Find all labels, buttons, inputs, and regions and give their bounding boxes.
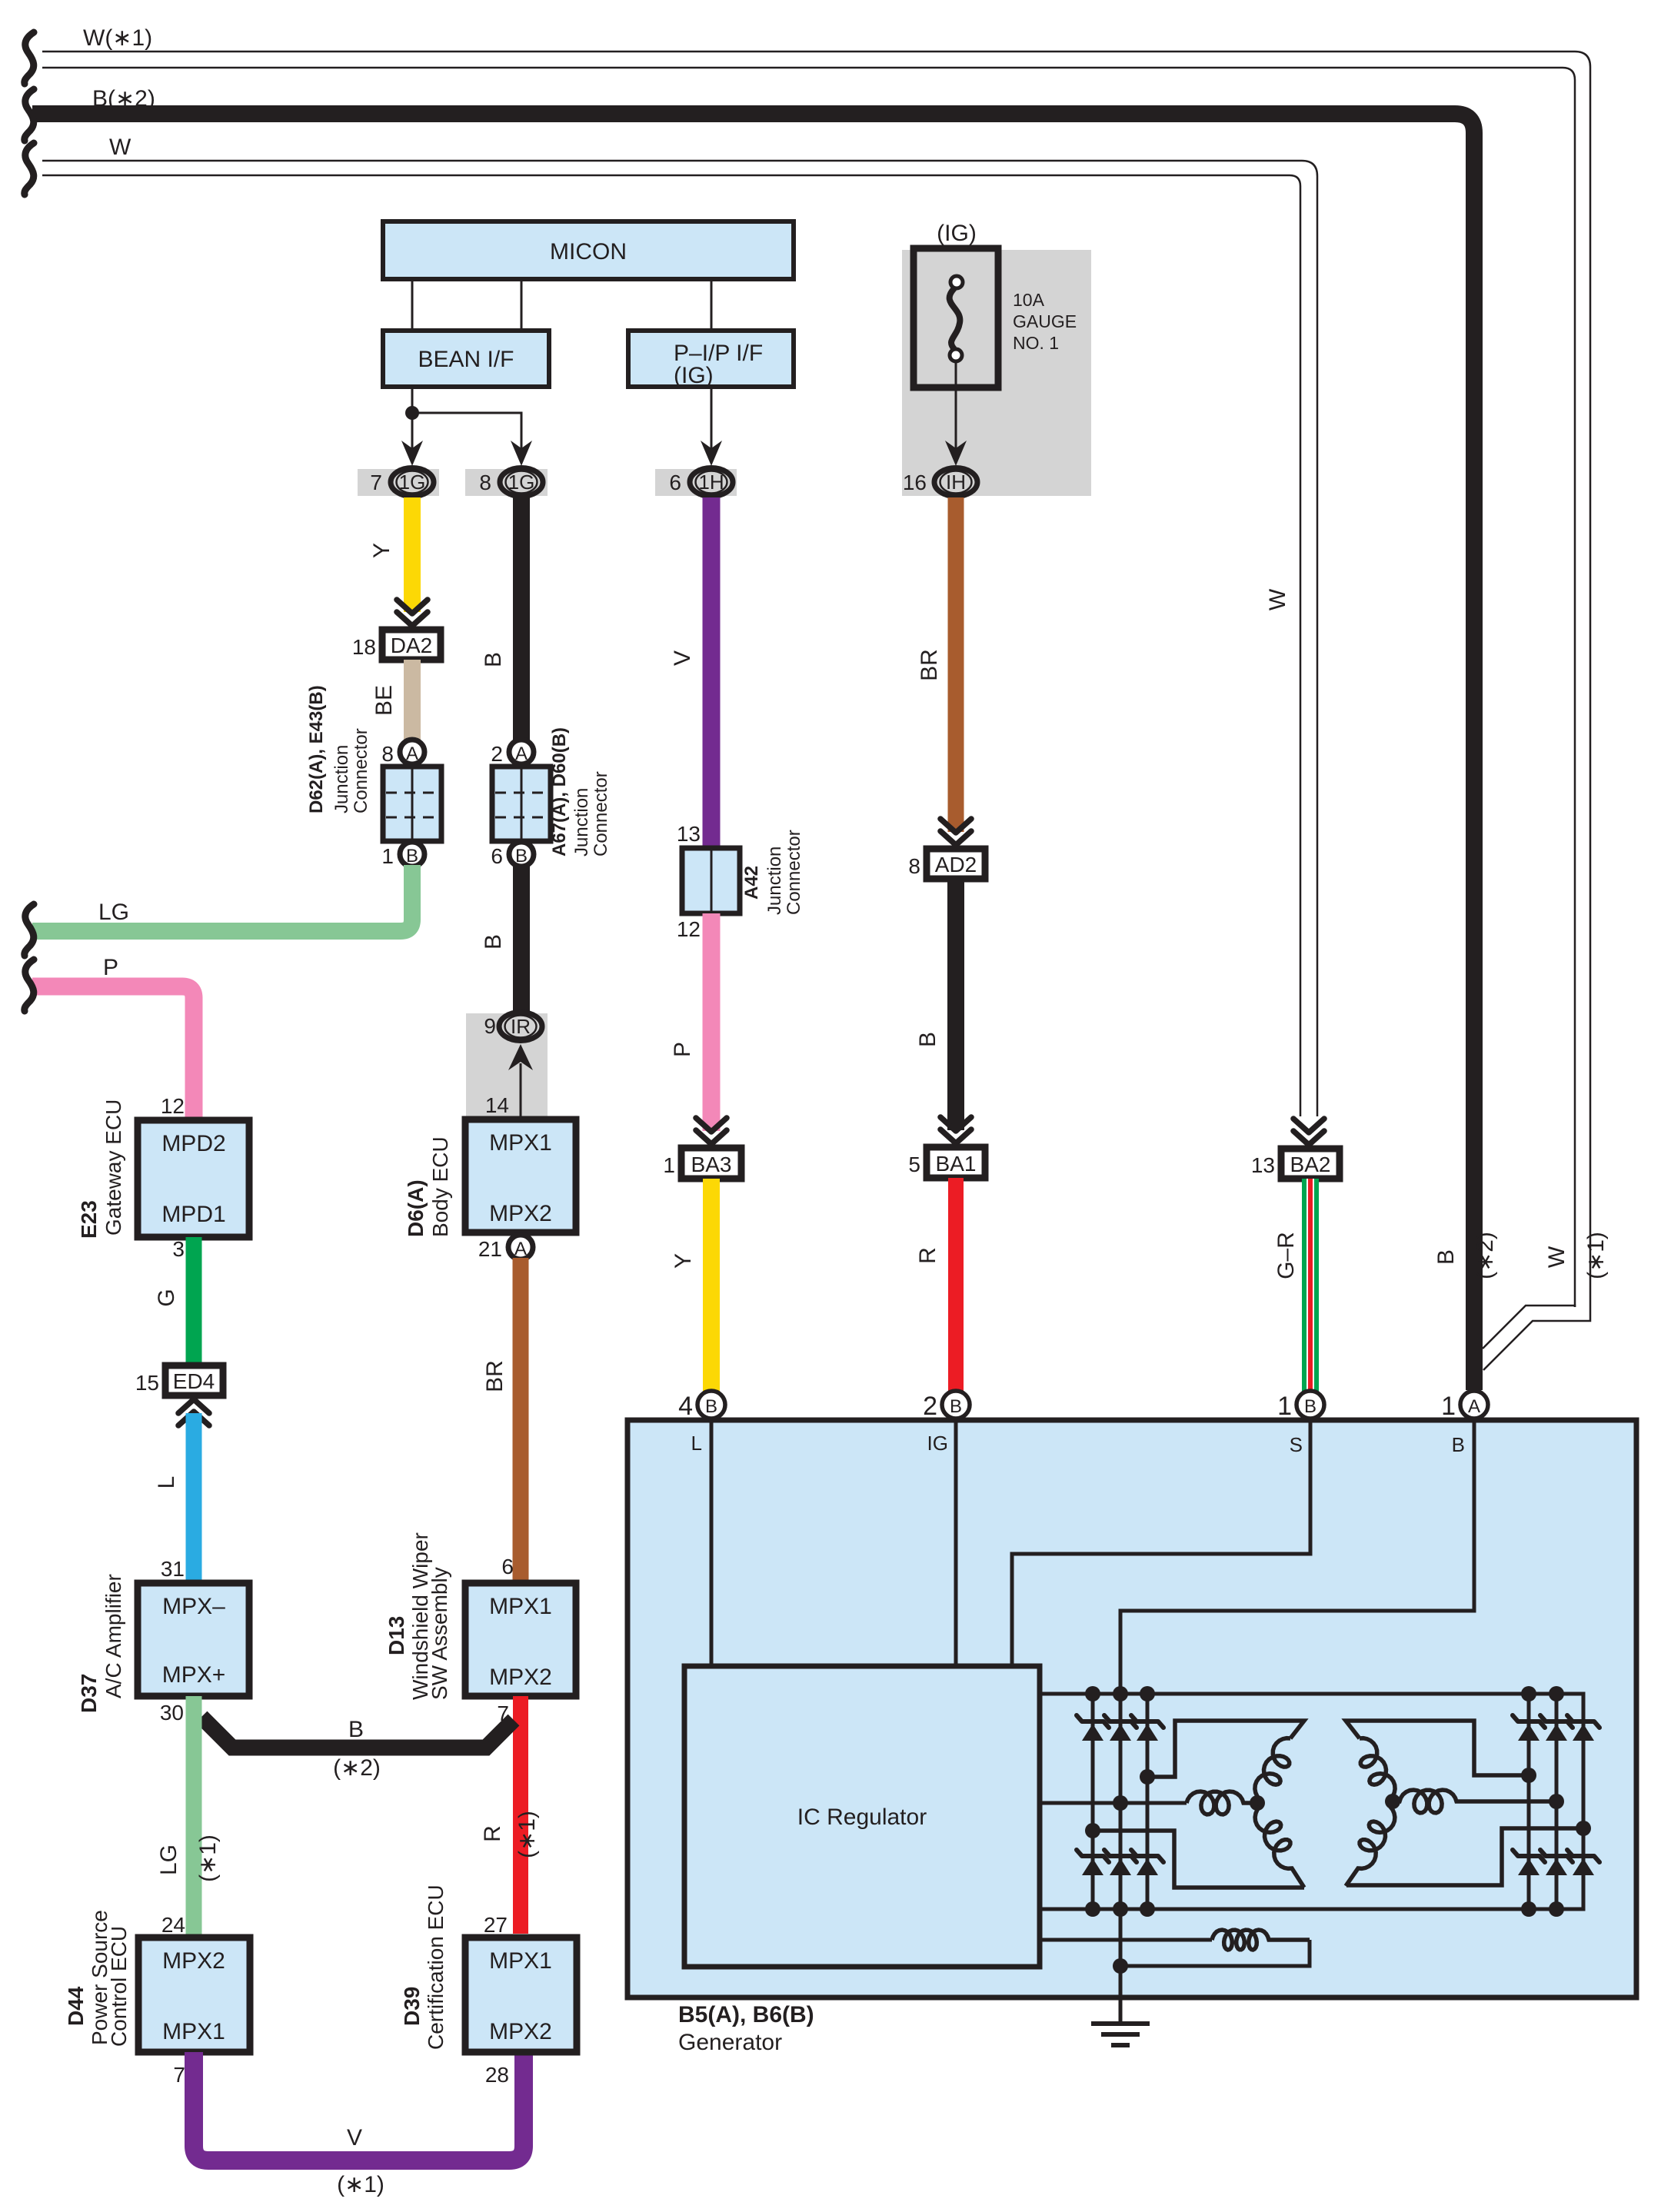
svg-text:L: L — [691, 1432, 702, 1455]
svg-text:BA3: BA3 — [691, 1153, 732, 1176]
svg-text:1G: 1G — [399, 471, 426, 494]
svg-text:BEAN I/F: BEAN I/F — [418, 347, 514, 372]
svg-text:Connector: Connector — [591, 771, 611, 857]
wire phase rail to left star centre (through coil) — [1040, 1801, 1187, 1805]
diode right bottom 1 — [1513, 1850, 1545, 1875]
box D37 A/C Amplifier — [138, 1583, 249, 1696]
junction connector A67(A),D60(B) box — [492, 767, 551, 841]
wire right star top lead — [1346, 1721, 1529, 1775]
coil left star top winding — [1255, 1738, 1290, 1799]
svg-text:MPX2: MPX2 — [489, 2019, 552, 2044]
node: W(*1) merge into B wire (diagonal jog) — [1483, 1306, 1590, 1370]
pin circle 1 A (B) — [1460, 1391, 1488, 1419]
box IC Regulator — [684, 1666, 1040, 1967]
wire S pin to IC regulator — [1012, 1420, 1310, 1666]
grey block IR area — [466, 1013, 548, 1119]
wire B(*2) bus (thick black) — [32, 114, 1474, 1390]
arrow into 16 IH — [945, 441, 967, 466]
svg-text:(IG): (IG) — [674, 363, 714, 388]
wire Y (yellow) BA3 to generator pin 4 — [703, 1179, 720, 1392]
svg-text:GAUGE: GAUGE — [1013, 311, 1077, 331]
wire R (red) D13 to D39 — [513, 1696, 528, 1934]
diode right top 1 — [1513, 1715, 1545, 1741]
svg-text:MPX+: MPX+ — [162, 1662, 226, 1688]
svg-text:MICON: MICON — [550, 239, 627, 264]
svg-text:DA2: DA2 — [391, 634, 432, 657]
svg-text:13: 13 — [1251, 1153, 1275, 1177]
svg-text:B: B — [1452, 1433, 1465, 1456]
wire MICON to P-I/P I/F — [711, 279, 713, 331]
svg-text:15: 15 — [135, 1371, 159, 1395]
svg-text:12: 12 — [677, 917, 701, 941]
wire left star bottom lead — [1093, 1831, 1304, 1888]
wire P (pink) A42 to BA3 — [703, 913, 721, 1131]
svg-text:24: 24 — [161, 1913, 185, 1937]
ground — [1091, 2024, 1150, 2045]
svg-text:S: S — [1290, 1433, 1303, 1456]
connector oval IH pin 16 — [934, 468, 977, 497]
svg-text:W: W — [1544, 1246, 1569, 1268]
svg-text:21: 21 — [478, 1237, 502, 1261]
svg-text:8: 8 — [381, 742, 394, 766]
svg-text:BR: BR — [917, 649, 942, 681]
coil field winding — [1212, 1930, 1310, 1950]
svg-text:(∗1): (∗1) — [195, 1834, 221, 1882]
svg-text:B: B — [950, 1396, 962, 1417]
svg-text:MPD1: MPD1 — [161, 1202, 225, 1227]
junction dot — [405, 406, 419, 420]
svg-text:R: R — [480, 1825, 505, 1842]
wire MICON to BEAN I/F pin1 — [411, 279, 414, 331]
wire centre column to ground — [1119, 1909, 1123, 2024]
wire MICON to BEAN I/F pin2 — [521, 279, 523, 331]
svg-text:Control ECU: Control ECU — [107, 1926, 131, 2047]
junction connector circle B pin 6 — [509, 842, 534, 867]
svg-text:8: 8 — [479, 471, 491, 494]
box P-I/P I/F (IG) — [628, 331, 794, 387]
svg-text:9: 9 — [484, 1014, 496, 1038]
wire B(*2) horizontal D37 to D13 — [201, 1717, 514, 1748]
svg-text:D39: D39 — [400, 1987, 424, 2026]
svg-text:E23: E23 — [77, 1200, 101, 1239]
svg-text:MPX2: MPX2 — [162, 1948, 225, 1974]
box generator — [627, 1420, 1636, 1997]
svg-text:B: B — [1304, 1396, 1316, 1417]
wire B pin to rectifier top rail — [1120, 1420, 1474, 1694]
svg-text:D6(A): D6(A) — [404, 1179, 428, 1237]
svg-text:MPX2: MPX2 — [489, 1665, 552, 1690]
svg-text:Junction: Junction — [764, 847, 785, 915]
wire top rail — [1040, 1694, 1583, 1909]
arrow up out of ED4 — [178, 1399, 209, 1425]
wire right diode column 1 — [1527, 1694, 1531, 1909]
connector BA3 pin 1 — [681, 1148, 741, 1179]
connector ED4 pin 15 — [165, 1365, 223, 1395]
svg-text:A: A — [515, 743, 528, 764]
wire R (red) BA1 to generator pin 2 — [948, 1178, 964, 1392]
box D13 Windshield Wiper SW Assembly — [465, 1583, 576, 1696]
svg-text:(∗1): (∗1) — [514, 1811, 540, 1858]
svg-text:BR: BR — [482, 1360, 508, 1392]
fuse 10A GAUGE NO.1 — [914, 248, 998, 388]
coil left star bottom winding — [1255, 1807, 1304, 1888]
wire LG (light green) from circle B to left edge — [32, 865, 412, 931]
svg-text:B: B — [1433, 1249, 1459, 1265]
svg-text:1H: 1H — [698, 471, 724, 494]
junction circle A pin 21 — [508, 1235, 533, 1259]
svg-text:2: 2 — [491, 742, 503, 766]
diode right top 3 — [1567, 1715, 1599, 1741]
wire IG pin to IC regulator — [954, 1420, 958, 1666]
wire P (pink) from left edge to E23 pin 12 — [32, 986, 194, 1122]
wire W(*1) bus (white wire drawn as double line, top) — [42, 52, 1590, 1307]
svg-text:B: B — [481, 652, 506, 667]
svg-text:1: 1 — [1277, 1392, 1292, 1421]
arrow into 6 1H — [701, 441, 722, 466]
svg-text:W: W — [109, 135, 131, 160]
svg-text:Connector: Connector — [784, 830, 804, 915]
box D44 Power Source Control ECU — [138, 1938, 250, 2052]
junction connector circle B pin 1 — [400, 842, 424, 867]
svg-text:16: 16 — [903, 471, 927, 494]
svg-text:P: P — [670, 1042, 695, 1057]
wire W bus (double line, third) — [42, 161, 1317, 1116]
svg-text:MPX1: MPX1 — [489, 1130, 552, 1156]
connector oval 1H pin 6 — [690, 468, 733, 497]
svg-text:6: 6 — [669, 471, 681, 494]
svg-text:IH: IH — [946, 471, 966, 494]
diode left top 2 — [1104, 1715, 1137, 1741]
svg-text:IC Regulator: IC Regulator — [797, 1805, 927, 1830]
wire L (blue) ED4 to D37 pin 31 — [186, 1413, 202, 1583]
svg-text:LG: LG — [156, 1844, 181, 1875]
junction connector A67(A),D60(B) circle A pin 2 — [509, 740, 534, 764]
svg-text:W(∗1): W(∗1) — [83, 25, 152, 51]
svg-text:1: 1 — [1441, 1392, 1456, 1421]
svg-text:14: 14 — [485, 1093, 509, 1117]
fuse element terminals and wire — [950, 276, 963, 288]
wire G-R (green with red stripe) BA2 to generator pin 1 B — [1302, 1179, 1319, 1392]
svg-text:B: B — [915, 1032, 940, 1047]
arrow into BA1 — [940, 1117, 971, 1143]
connector BA1 pin 5 — [927, 1147, 985, 1178]
svg-text:B(∗2): B(∗2) — [92, 86, 155, 111]
grey band connector 7 1G — [358, 469, 439, 496]
diode right bottom 3 — [1567, 1850, 1599, 1875]
wire branch to second 1G — [412, 413, 521, 449]
svg-text:Certification ECU: Certification ECU — [424, 1884, 448, 2050]
svg-text:SW Assembly: SW Assembly — [428, 1567, 451, 1700]
svg-text:ED4: ED4 — [173, 1369, 215, 1393]
wire V (violet) 1H to A42 — [703, 497, 721, 850]
connector AD2 pin 8 — [927, 849, 985, 879]
svg-text:A: A — [1468, 1396, 1480, 1417]
wire field top — [1040, 1938, 1212, 1942]
wire B (black) AD2 to BA1 — [947, 879, 964, 1130]
svg-text:(∗1): (∗1) — [337, 2172, 384, 2197]
box BEAN I/F — [383, 331, 549, 387]
wire right diode column 2 — [1555, 1694, 1559, 1909]
svg-text:G–R: G–R — [1273, 1232, 1299, 1279]
svg-text:B: B — [406, 846, 418, 867]
connector oval IR pin 9 — [499, 1013, 542, 1041]
arrow into BA2 — [1293, 1119, 1324, 1145]
arrow into BA3 — [696, 1118, 727, 1144]
svg-text:(∗2): (∗2) — [333, 1755, 381, 1781]
box MICON — [383, 221, 794, 279]
svg-text:3: 3 — [172, 1237, 185, 1261]
svg-text:MPX1: MPX1 — [489, 1948, 552, 1974]
svg-text:MPX2: MPX2 — [489, 1201, 552, 1226]
svg-text:1: 1 — [381, 844, 394, 868]
wire Y (yellow) — [404, 497, 421, 612]
diode right bottom 2 — [1540, 1850, 1573, 1875]
svg-text:28: 28 — [485, 2063, 509, 2087]
wire BEAN I/F down with junction — [411, 387, 414, 449]
svg-text:P: P — [103, 955, 118, 980]
svg-text:A: A — [406, 743, 418, 764]
svg-text:6: 6 — [491, 844, 503, 868]
connector oval 1G pin 8 — [500, 468, 543, 497]
brace B(*2) — [25, 89, 34, 141]
wire V (violet) D44 to D39 — [194, 2052, 524, 2160]
wire L pin to IC regulator — [710, 1420, 714, 1666]
svg-text:7: 7 — [173, 2063, 185, 2087]
connector oval 1G pin 7 — [391, 468, 434, 497]
diode left bottom 3 — [1131, 1850, 1163, 1875]
wire left diode column 1 — [1091, 1694, 1095, 1909]
svg-text:Generator: Generator — [678, 2030, 782, 2055]
svg-text:D13: D13 — [384, 1616, 408, 1655]
svg-text:MPX1: MPX1 — [162, 2019, 225, 2044]
svg-text:(∗1): (∗1) — [1583, 1232, 1609, 1279]
wire left star top lead — [1147, 1721, 1304, 1777]
coil left star horizontal winding — [1187, 1791, 1257, 1815]
diode left bottom 1 — [1077, 1850, 1109, 1875]
svg-text:27: 27 — [484, 1913, 508, 1937]
svg-text:18: 18 — [352, 635, 376, 659]
svg-text:30: 30 — [160, 1701, 184, 1725]
arrow into 7 1G — [401, 441, 423, 466]
arrow into DA2 — [397, 600, 428, 626]
svg-text:Junction: Junction — [571, 788, 592, 857]
svg-text:Gateway ECU: Gateway ECU — [102, 1099, 125, 1236]
svg-text:V: V — [670, 650, 695, 666]
svg-text:1G: 1G — [508, 471, 535, 494]
svg-text:B: B — [348, 1717, 364, 1742]
svg-text:A67(A), D60(B): A67(A), D60(B) — [549, 727, 570, 857]
svg-text:Y: Y — [671, 1253, 696, 1269]
pin circle 4 B (L) — [697, 1391, 725, 1419]
wire fuse to IH — [955, 361, 957, 449]
svg-text:(IG): (IG) — [937, 221, 977, 246]
pin circle 1 B (S) — [1297, 1391, 1324, 1419]
diode right top 2 — [1540, 1715, 1573, 1741]
brace LG — [25, 904, 34, 956]
coil right star top winding — [1360, 1738, 1395, 1799]
brace P — [25, 960, 34, 1011]
svg-text:NO. 1: NO. 1 — [1013, 333, 1059, 353]
wire right star bottom lead — [1346, 1828, 1583, 1885]
svg-text:13: 13 — [677, 822, 701, 846]
svg-text:BA1: BA1 — [936, 1152, 977, 1176]
wire IR to D6 pin 14 — [520, 1063, 522, 1119]
brace W(*1) — [25, 32, 34, 84]
svg-text:(∗2): (∗2) — [1473, 1232, 1498, 1279]
svg-text:8: 8 — [908, 854, 920, 878]
junction connector D62(A),E43(B) box — [383, 767, 441, 841]
svg-text:5: 5 — [908, 1153, 920, 1176]
junction dots bottom rail — [1085, 1901, 1100, 1917]
svg-text:IR: IR — [511, 1015, 531, 1038]
svg-text:MPX–: MPX– — [162, 1594, 225, 1619]
svg-text:B: B — [515, 846, 528, 867]
box D39 Certification ECU — [465, 1938, 577, 2052]
svg-text:A: A — [514, 1239, 527, 1259]
grey block fuse area — [902, 250, 1091, 496]
svg-text:D37: D37 — [77, 1674, 101, 1713]
svg-text:R: R — [915, 1247, 940, 1264]
wire P-I/P down — [711, 387, 713, 449]
svg-text:A42: A42 — [741, 866, 762, 900]
svg-text:Junction: Junction — [331, 745, 352, 813]
svg-text:B: B — [705, 1396, 717, 1417]
wire BR (brown) D6 to D13 — [513, 1258, 529, 1583]
svg-text:W: W — [1265, 588, 1290, 610]
svg-text:A/C Amplifier: A/C Amplifier — [102, 1574, 125, 1698]
svg-text:AD2: AD2 — [935, 853, 977, 876]
svg-text:Y: Y — [369, 543, 394, 558]
arrow up into IR — [508, 1044, 533, 1070]
svg-text:L: L — [154, 1476, 179, 1489]
svg-text:31: 31 — [161, 1557, 185, 1581]
svg-text:B5(A), B6(B): B5(A), B6(B) — [678, 2002, 814, 2027]
svg-text:6: 6 — [501, 1555, 514, 1578]
svg-text:D62(A), E43(B): D62(A), E43(B) — [306, 685, 327, 813]
box D6(A) Body ECU — [465, 1119, 576, 1232]
svg-text:B: B — [481, 934, 506, 950]
svg-text:BA2: BA2 — [1290, 1153, 1331, 1176]
svg-text:MPD2: MPD2 — [161, 1131, 225, 1156]
diode left bottom 2 — [1104, 1850, 1137, 1875]
svg-text:IG: IG — [927, 1432, 948, 1455]
wire left diode column 3 — [1146, 1694, 1150, 1909]
svg-text:12: 12 — [161, 1094, 185, 1118]
junction connector D62(A),E43(B) circle A pin 8 — [400, 740, 424, 764]
svg-text:D44: D44 — [64, 1986, 88, 2026]
svg-text:4: 4 — [678, 1392, 693, 1421]
svg-text:Body ECU: Body ECU — [428, 1136, 452, 1237]
diode left top 1 — [1077, 1715, 1109, 1741]
arrow into 8 1G — [511, 441, 532, 466]
wire B (black) from 1G to A67 — [513, 497, 530, 754]
svg-text:BE: BE — [371, 685, 397, 716]
arrow into AD2 — [940, 819, 971, 845]
svg-text:7: 7 — [497, 1701, 509, 1725]
svg-text:1: 1 — [663, 1153, 675, 1177]
svg-text:V: V — [347, 2125, 362, 2150]
box E23 Gateway ECU — [138, 1120, 249, 1237]
pin circle 2 B (IG) — [942, 1391, 970, 1419]
svg-text:10A: 10A — [1013, 290, 1045, 310]
junction dots top rail — [1085, 1686, 1100, 1701]
svg-text:LG: LG — [98, 900, 129, 925]
svg-text:G: G — [154, 1289, 179, 1306]
svg-text:Connector: Connector — [351, 728, 371, 813]
wire LG (light green) D37 to D44 — [186, 1696, 202, 1938]
coil right star horizontal winding — [1393, 1790, 1556, 1813]
svg-text:MPX1: MPX1 — [489, 1594, 552, 1619]
connector DA2 pin 18 — [382, 630, 441, 660]
wire G (green) E23 to ED4 — [186, 1237, 202, 1367]
wire field return — [1120, 1940, 1310, 1966]
grey band connector 8 1G — [465, 469, 548, 496]
wire BR (brown) IH to AD2 — [948, 497, 964, 832]
wire left diode column 2 — [1119, 1694, 1123, 1909]
coil right star bottom winding — [1346, 1807, 1395, 1886]
wire B (black) from A67 to IR — [513, 865, 530, 1012]
grey band connector 6 1H — [655, 469, 737, 496]
diode left top 3 — [1131, 1715, 1163, 1741]
brace W — [25, 143, 34, 195]
connector BA2 pin 13 — [1281, 1149, 1340, 1179]
svg-text:7: 7 — [370, 471, 382, 494]
wire BE (beige) — [404, 660, 421, 754]
svg-text:2: 2 — [923, 1392, 937, 1421]
